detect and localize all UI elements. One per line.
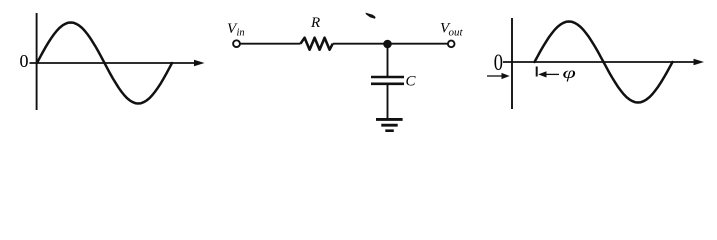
svg-text:in: in xyxy=(237,28,245,39)
svg-text:R: R xyxy=(310,15,320,31)
svg-text:out: out xyxy=(449,27,464,39)
svg-text:0: 0 xyxy=(494,49,503,76)
svg-text:φ: φ xyxy=(563,64,576,81)
svg-text:C: C xyxy=(406,73,417,89)
svg-text:0: 0 xyxy=(20,51,29,71)
